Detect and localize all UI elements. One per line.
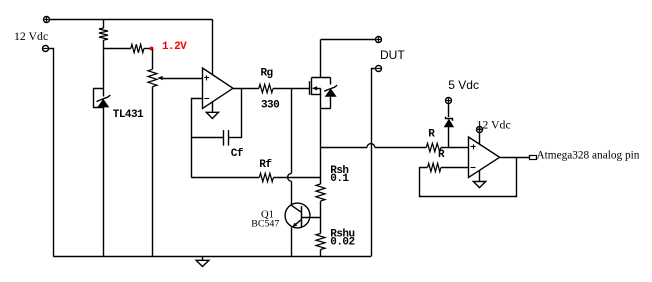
- transistor Q1: [285, 203, 321, 256]
- svg-text:1.2V: 1.2V: [162, 41, 187, 53]
- label DUT: [380, 48, 405, 62]
- wire Rf left: [191, 177, 259, 179]
- wire top rail: [49, 19, 212, 21]
- op-amp U1: [203, 68, 234, 109]
- capacitor Cf branch wire: [191, 137, 224, 139]
- label Rsh: [330, 165, 348, 177]
- transistor M1 power MOSFET: [310, 39, 338, 147]
- wire TL431 anode to ground rail: [103, 107, 105, 256]
- U1 V+ power stub: [212, 19, 214, 74]
- wire gate to Q1 collector (hops over Rf wire): [288, 88, 292, 205]
- wire TL431 cathode: [103, 49, 105, 97]
- U1 inverting input wire: [192, 99, 203, 178]
- wire U2 output: [500, 157, 530, 159]
- svg-text:Atmega328 analog pin: Atmega328 analog pin: [537, 149, 640, 161]
- label 330: [261, 100, 279, 112]
- label Q1: [261, 210, 274, 221]
- wire DUT- down to ground rail: [372, 69, 376, 257]
- svg-text:Cf: Cf: [231, 148, 244, 160]
- U2 feedback resistor R5: [420, 158, 517, 197]
- wire Rf to Rsh top: [273, 177, 320, 179]
- wire Cf to output: [241, 88, 243, 138]
- label 0.1: [330, 173, 349, 185]
- label TL431: [113, 109, 144, 121]
- label R feedback: [438, 149, 445, 161]
- label Rg: [261, 68, 273, 80]
- node 1.2V probe dot: [150, 47, 154, 51]
- resistor Rshu: [316, 234, 325, 257]
- ground: [196, 256, 209, 266]
- label R input: [428, 128, 435, 140]
- resistor R4 input: [426, 143, 441, 151]
- wire divider node: [104, 48, 131, 50]
- terminal 12 Vdc + (U2 supply): [477, 127, 483, 133]
- svg-text:5 Vdc: 5 Vdc: [448, 78, 479, 92]
- terminal DUT +: [376, 37, 382, 43]
- label Rshu: [330, 228, 354, 240]
- battery terminal - (12 Vdc): [43, 46, 49, 52]
- pin Atmega328 analog pin: [530, 156, 537, 160]
- label Cf: [231, 148, 244, 160]
- diode D1 clamp to 5V: [445, 104, 454, 148]
- wire source node to sense wire: [320, 147, 322, 184]
- op-amp U2: [469, 137, 500, 178]
- svg-text:Rg: Rg: [261, 68, 273, 80]
- svg-text:Rf: Rf: [259, 159, 272, 171]
- svg-text:12 Vdc: 12 Vdc: [14, 29, 48, 43]
- wire 1.2V node to pot: [152, 49, 154, 69]
- svg-text:R: R: [438, 149, 445, 161]
- U2 V- ground: [473, 170, 485, 187]
- label Atmega328 analog pin: [537, 149, 640, 161]
- label BC547: [251, 218, 279, 229]
- U1 V- ground: [206, 102, 218, 119]
- svg-text:BC547: BC547: [251, 218, 279, 229]
- svg-text:0.02: 0.02: [330, 236, 354, 248]
- label 12 Vdc U2: [477, 117, 511, 131]
- wire drain to DUT+: [321, 39, 376, 41]
- label Rf: [259, 159, 272, 171]
- svg-text:12 Vdc: 12 Vdc: [477, 117, 511, 131]
- label 0.02: [330, 236, 354, 248]
- svg-text:DUT: DUT: [380, 48, 405, 62]
- svg-text:TL431: TL431: [113, 109, 144, 121]
- terminal 5 Vdc +: [446, 98, 452, 104]
- resistor R1 (upper divider): [99, 19, 108, 49]
- shunt regulator U3 TL431: [94, 89, 111, 108]
- capacitor Cf: [224, 130, 242, 146]
- label 1.2V: [162, 41, 187, 53]
- U2 V+ power stub: [479, 132, 481, 144]
- battery terminal + (12 Vdc): [44, 17, 50, 23]
- svg-text:R: R: [428, 128, 435, 140]
- resistor Rg: [259, 84, 273, 92]
- pot wiper to op-amp +: [157, 76, 202, 80]
- label 12 Vdc source: [14, 29, 48, 43]
- potentiometer R3: [148, 69, 157, 256]
- wire sense to amp (hops over DUT- wire): [321, 144, 427, 148]
- resistor R2 (to 1.2V node): [131, 44, 152, 52]
- svg-text:0.1: 0.1: [330, 173, 349, 185]
- wire gate node: [273, 88, 309, 90]
- wire - terminal to ground rail: [49, 49, 54, 257]
- resistor Rsh: [316, 184, 325, 234]
- resistor Rf: [259, 173, 273, 181]
- terminal DUT -: [376, 66, 382, 72]
- wire ground rail: [53, 256, 371, 258]
- svg-text:330: 330: [261, 100, 279, 112]
- wire R to U2 +: [441, 147, 469, 149]
- wire U1 output: [233, 88, 259, 90]
- label 5 Vdc: [448, 78, 479, 92]
